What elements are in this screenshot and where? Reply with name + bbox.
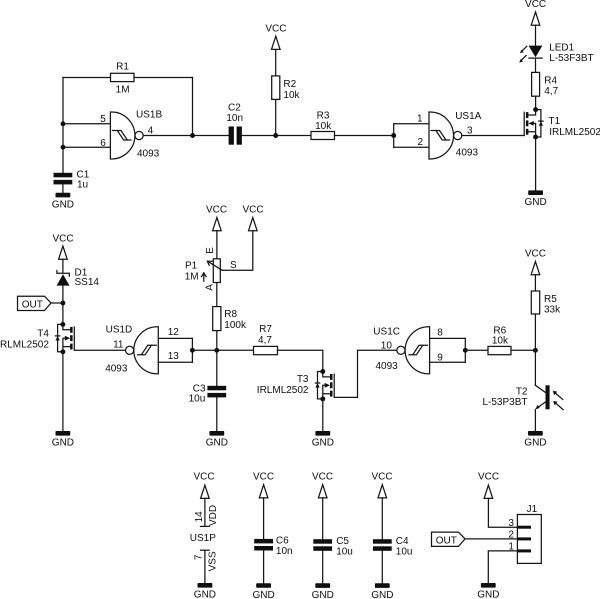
node US1A input junction bbox=[391, 133, 396, 138]
wire C2 to R3 bbox=[242, 135, 311, 137]
capacitor C5 bbox=[313, 536, 353, 557]
svg-text:100k: 100k bbox=[224, 320, 247, 331]
wire feedback down to output node bbox=[192, 78, 194, 136]
wire pin 14 VDD bbox=[204, 498, 206, 526]
svg-text:VCC: VCC bbox=[525, 0, 546, 10]
svg-text:10k: 10k bbox=[315, 121, 332, 132]
ground J1 bbox=[477, 583, 499, 599]
svg-text:6: 6 bbox=[100, 138, 106, 149]
svg-text:3: 3 bbox=[467, 126, 473, 137]
svg-text:2: 2 bbox=[508, 530, 514, 541]
svg-text:3: 3 bbox=[508, 518, 514, 529]
power VCC T1 bbox=[525, 0, 546, 25]
svg-text:4,7: 4,7 bbox=[258, 335, 272, 346]
svg-text:L-53P3BT: L-53P3BT bbox=[482, 397, 527, 408]
svg-text:4: 4 bbox=[148, 126, 154, 137]
power VCC C5 bbox=[312, 472, 333, 498]
ground T3 bbox=[312, 431, 334, 449]
wire VCC to LED1 bbox=[535, 25, 537, 45]
resistor R3 bbox=[311, 111, 335, 140]
capacitor C1 bbox=[54, 169, 90, 190]
wire tie to R7 bbox=[192, 349, 253, 351]
svg-text:1u: 1u bbox=[77, 180, 88, 191]
op-amp US1B (NAND 4093) bbox=[100, 110, 162, 160]
wire pin 7 VSS bbox=[204, 550, 206, 583]
ground C1 bbox=[52, 193, 74, 211]
node US1B output junction bbox=[190, 133, 195, 138]
op-amp US1C (NAND 4093) bbox=[373, 327, 443, 374]
svg-text:VCC: VCC bbox=[242, 204, 263, 215]
op-amp US1D (NAND 4093) bbox=[105, 325, 179, 375]
wire R7 to T3 drain bbox=[278, 350, 323, 371]
wire US1C input tie bbox=[464, 338, 466, 362]
wire pin 2 bbox=[394, 146, 429, 148]
node OUT flag J1 bbox=[432, 532, 466, 546]
svg-text:T4: T4 bbox=[37, 328, 49, 339]
svg-text:VDD: VDD bbox=[208, 505, 219, 526]
wire US1B output bbox=[143, 135, 228, 137]
svg-text:OUT: OUT bbox=[436, 535, 457, 546]
wire T3 source to ground bbox=[322, 399, 324, 431]
wire tie to R6 bbox=[465, 349, 488, 351]
svg-text:S: S bbox=[230, 260, 237, 271]
wire C1 to ground bbox=[62, 184, 64, 192]
wire R3 to US1A inputs bbox=[335, 135, 394, 137]
power VCC R5 bbox=[525, 249, 546, 275]
svg-text:1M: 1M bbox=[116, 85, 130, 96]
svg-text:10n: 10n bbox=[276, 546, 293, 557]
svg-text:R1: R1 bbox=[116, 62, 129, 73]
svg-text:5: 5 bbox=[100, 114, 106, 125]
wire R1 right bbox=[134, 77, 193, 79]
svg-text:VCC: VCC bbox=[52, 234, 73, 245]
wire P1 to R8 bbox=[216, 283, 218, 307]
wire VCC to C5 bbox=[322, 498, 324, 539]
node C2-R2 junction bbox=[273, 133, 278, 138]
svg-text:10k: 10k bbox=[492, 335, 509, 346]
wire D1 to OUT node bbox=[62, 286, 64, 325]
wire US1D input tie bbox=[191, 338, 193, 362]
wire T3 gate to US1C output bbox=[335, 350, 398, 397]
wire R1 left feedback bbox=[63, 77, 111, 79]
svg-text:VCC: VCC bbox=[525, 249, 546, 260]
svg-text:OUT: OUT bbox=[22, 299, 43, 310]
wire VCC to R5 bbox=[534, 275, 536, 291]
resistor R4 bbox=[532, 72, 559, 97]
node US1D input junction bbox=[190, 348, 195, 353]
svg-text:10k: 10k bbox=[283, 90, 300, 101]
svg-text:US1P: US1P bbox=[190, 533, 216, 544]
svg-text:VCC: VCC bbox=[265, 24, 286, 35]
svg-text:10u: 10u bbox=[396, 546, 413, 557]
wire pin 8 bbox=[430, 337, 466, 339]
svg-text:R3: R3 bbox=[317, 111, 330, 122]
svg-text:T3: T3 bbox=[297, 374, 309, 385]
wire J1 pin 1 to ground bbox=[488, 551, 517, 583]
svg-text:4093: 4093 bbox=[105, 364, 128, 375]
resistor R2 bbox=[272, 76, 301, 101]
power VCC P1 E bbox=[206, 204, 227, 230]
svg-text:T2: T2 bbox=[516, 387, 528, 398]
svg-text:4093: 4093 bbox=[456, 148, 479, 159]
wire pin 12 bbox=[158, 337, 192, 339]
transistor T2 L-53P3BT (phototransistor) bbox=[482, 385, 563, 409]
wire pin 5 bbox=[63, 123, 110, 125]
transistor T4 IRLML2502 bbox=[0, 322, 74, 354]
wire pin 13 bbox=[158, 361, 192, 363]
power VCC C6 bbox=[253, 472, 274, 498]
svg-text:10: 10 bbox=[381, 341, 393, 352]
node R8-C3 junction bbox=[214, 348, 219, 353]
op-amp US1A (NAND 4093) bbox=[417, 111, 482, 159]
power VCC P1 S bbox=[242, 204, 263, 230]
svg-text:VCC: VCC bbox=[253, 472, 274, 483]
node pin5 junction bbox=[61, 121, 66, 126]
svg-text:IRLML2502: IRLML2502 bbox=[0, 340, 49, 351]
ground US1P bbox=[194, 583, 216, 599]
transistor T3 IRLML2502 bbox=[257, 369, 334, 401]
wire S terminal to VCC bbox=[222, 231, 253, 271]
ground T1 bbox=[524, 190, 546, 208]
wire pin 6 bbox=[63, 146, 110, 148]
wire R2 to VCC bbox=[275, 49, 277, 76]
node OUT flag bbox=[18, 296, 52, 310]
svg-text:US1A: US1A bbox=[455, 111, 481, 122]
wire junction to T2 collector bbox=[534, 350, 536, 385]
svg-text:US1B: US1B bbox=[136, 110, 162, 121]
pin 14 tick bbox=[201, 525, 210, 527]
node US1C input junction bbox=[463, 348, 468, 353]
wire VCC to D1 bbox=[62, 259, 64, 272]
wire C6 to ground bbox=[263, 551, 265, 584]
capacitor C2 bbox=[226, 103, 243, 145]
svg-text:4,7: 4,7 bbox=[544, 86, 558, 97]
diode D1 SS14 (Schottky) bbox=[57, 268, 100, 289]
svg-text:R2: R2 bbox=[283, 79, 296, 90]
svg-text:VCC: VCC bbox=[478, 472, 499, 483]
ground C6 bbox=[252, 583, 274, 599]
svg-text:C2: C2 bbox=[228, 103, 241, 114]
node R5-T2 junction bbox=[533, 348, 538, 353]
svg-text:1: 1 bbox=[508, 542, 514, 553]
svg-text:33k: 33k bbox=[544, 305, 561, 316]
svg-text:VSS: VSS bbox=[208, 551, 219, 571]
wire T4 source to ground bbox=[62, 352, 64, 431]
wire T2 emitter to ground bbox=[534, 410, 536, 432]
pin label 14 VDD bbox=[194, 505, 219, 526]
svg-text:L-53F3BT: L-53F3BT bbox=[549, 53, 593, 64]
svg-text:US1D: US1D bbox=[106, 325, 133, 336]
wire VCC to C6 bbox=[263, 498, 265, 539]
wire R4 to T1 drain bbox=[535, 96, 537, 109]
connector J1 bbox=[508, 504, 541, 564]
svg-text:VCC: VCC bbox=[312, 472, 333, 483]
wire R6 to R5-T2 junction bbox=[511, 349, 535, 351]
ground C3 bbox=[206, 431, 228, 449]
svg-text:IRLML2502: IRLML2502 bbox=[549, 127, 600, 138]
potentiometer P1 1M bbox=[185, 247, 237, 291]
svg-text:T1: T1 bbox=[549, 116, 561, 127]
resistor R7 bbox=[254, 324, 278, 355]
wire R2 bottom bbox=[275, 99, 277, 135]
svg-text:10n: 10n bbox=[226, 113, 243, 124]
wire T1 source to ground bbox=[535, 137, 537, 190]
power VCC C4 bbox=[371, 472, 392, 498]
pin 7 tick bbox=[201, 549, 210, 551]
svg-text:12: 12 bbox=[168, 327, 180, 338]
wire C5 to ground bbox=[322, 551, 324, 584]
pin label 7 VSS bbox=[194, 551, 219, 571]
svg-text:8: 8 bbox=[437, 328, 443, 339]
capacitor C6 bbox=[254, 536, 292, 557]
svg-text:SS14: SS14 bbox=[75, 277, 100, 288]
wire T4 gate to US1D output bbox=[75, 349, 125, 351]
wire US1A output to T1 gate bbox=[462, 135, 524, 137]
svg-text:7: 7 bbox=[194, 554, 205, 560]
svg-text:J1: J1 bbox=[527, 504, 538, 515]
power VCC US1P bbox=[193, 472, 214, 499]
svg-text:R4: R4 bbox=[544, 76, 557, 87]
wire OUT flag to J1 pin 2 bbox=[465, 538, 517, 540]
svg-text:4093: 4093 bbox=[376, 361, 399, 372]
wire R5 to junction bbox=[534, 314, 536, 350]
svg-text:R8: R8 bbox=[224, 309, 237, 320]
capacitor C4 bbox=[373, 536, 413, 557]
node OUT junction bbox=[60, 301, 65, 306]
ground T2 bbox=[524, 431, 546, 449]
wire C4 to ground bbox=[381, 551, 383, 584]
capacitor C3 bbox=[189, 383, 227, 404]
svg-text:R5: R5 bbox=[544, 294, 557, 305]
svg-text:R7: R7 bbox=[259, 324, 272, 335]
svg-text:14: 14 bbox=[194, 511, 205, 523]
power VCC D1 bbox=[52, 234, 73, 260]
resistor R8 bbox=[213, 307, 247, 331]
wire R8 to junction bbox=[216, 331, 218, 351]
wire junction to C3 bbox=[216, 350, 218, 386]
wire left vertical feedback bbox=[62, 78, 64, 173]
power VCC R2 bbox=[265, 24, 286, 50]
svg-text:P1: P1 bbox=[185, 261, 198, 272]
ground T4 bbox=[52, 431, 74, 449]
wire VCC to C4 bbox=[381, 498, 383, 539]
power VCC J1 bbox=[478, 472, 499, 499]
svg-text:11: 11 bbox=[113, 340, 124, 351]
wire pin 9 bbox=[430, 361, 466, 363]
svg-text:E: E bbox=[205, 247, 216, 254]
wire VCC to J1 pin 3 bbox=[488, 498, 517, 527]
ground C5 bbox=[312, 583, 334, 599]
svg-text:US1C: US1C bbox=[373, 327, 400, 338]
svg-text:VCC: VCC bbox=[206, 204, 227, 215]
svg-text:10u: 10u bbox=[189, 393, 206, 404]
resistor R5 bbox=[531, 291, 561, 316]
transistor T1 IRLML2502 bbox=[524, 107, 600, 139]
svg-text:VCC: VCC bbox=[371, 472, 392, 483]
svg-text:A: A bbox=[204, 284, 215, 291]
node pin6 junction bbox=[61, 145, 66, 150]
ground C4 bbox=[371, 583, 393, 599]
wire VCC to P1 top bbox=[216, 231, 218, 259]
svg-text:VCC: VCC bbox=[193, 472, 214, 483]
svg-text:4093: 4093 bbox=[137, 148, 160, 159]
svg-text:1: 1 bbox=[417, 113, 423, 124]
svg-text:10u: 10u bbox=[336, 546, 353, 557]
wire C3 to ground bbox=[216, 397, 218, 431]
wire US1A input tie bbox=[393, 124, 395, 147]
svg-text:13: 13 bbox=[168, 351, 180, 362]
wire OUT flag to node bbox=[51, 302, 63, 304]
wire pin 1 bbox=[394, 123, 429, 125]
resistor R1 bbox=[111, 62, 135, 96]
LED LED1 L-53F3BT bbox=[519, 43, 593, 64]
svg-text:1M: 1M bbox=[185, 272, 199, 283]
svg-text:2: 2 bbox=[417, 137, 423, 148]
wire LED1 to R4 bbox=[535, 59, 537, 73]
resistor R6 bbox=[488, 326, 511, 355]
svg-text:IRLML2502: IRLML2502 bbox=[257, 385, 309, 396]
svg-text:LED1: LED1 bbox=[549, 43, 574, 54]
